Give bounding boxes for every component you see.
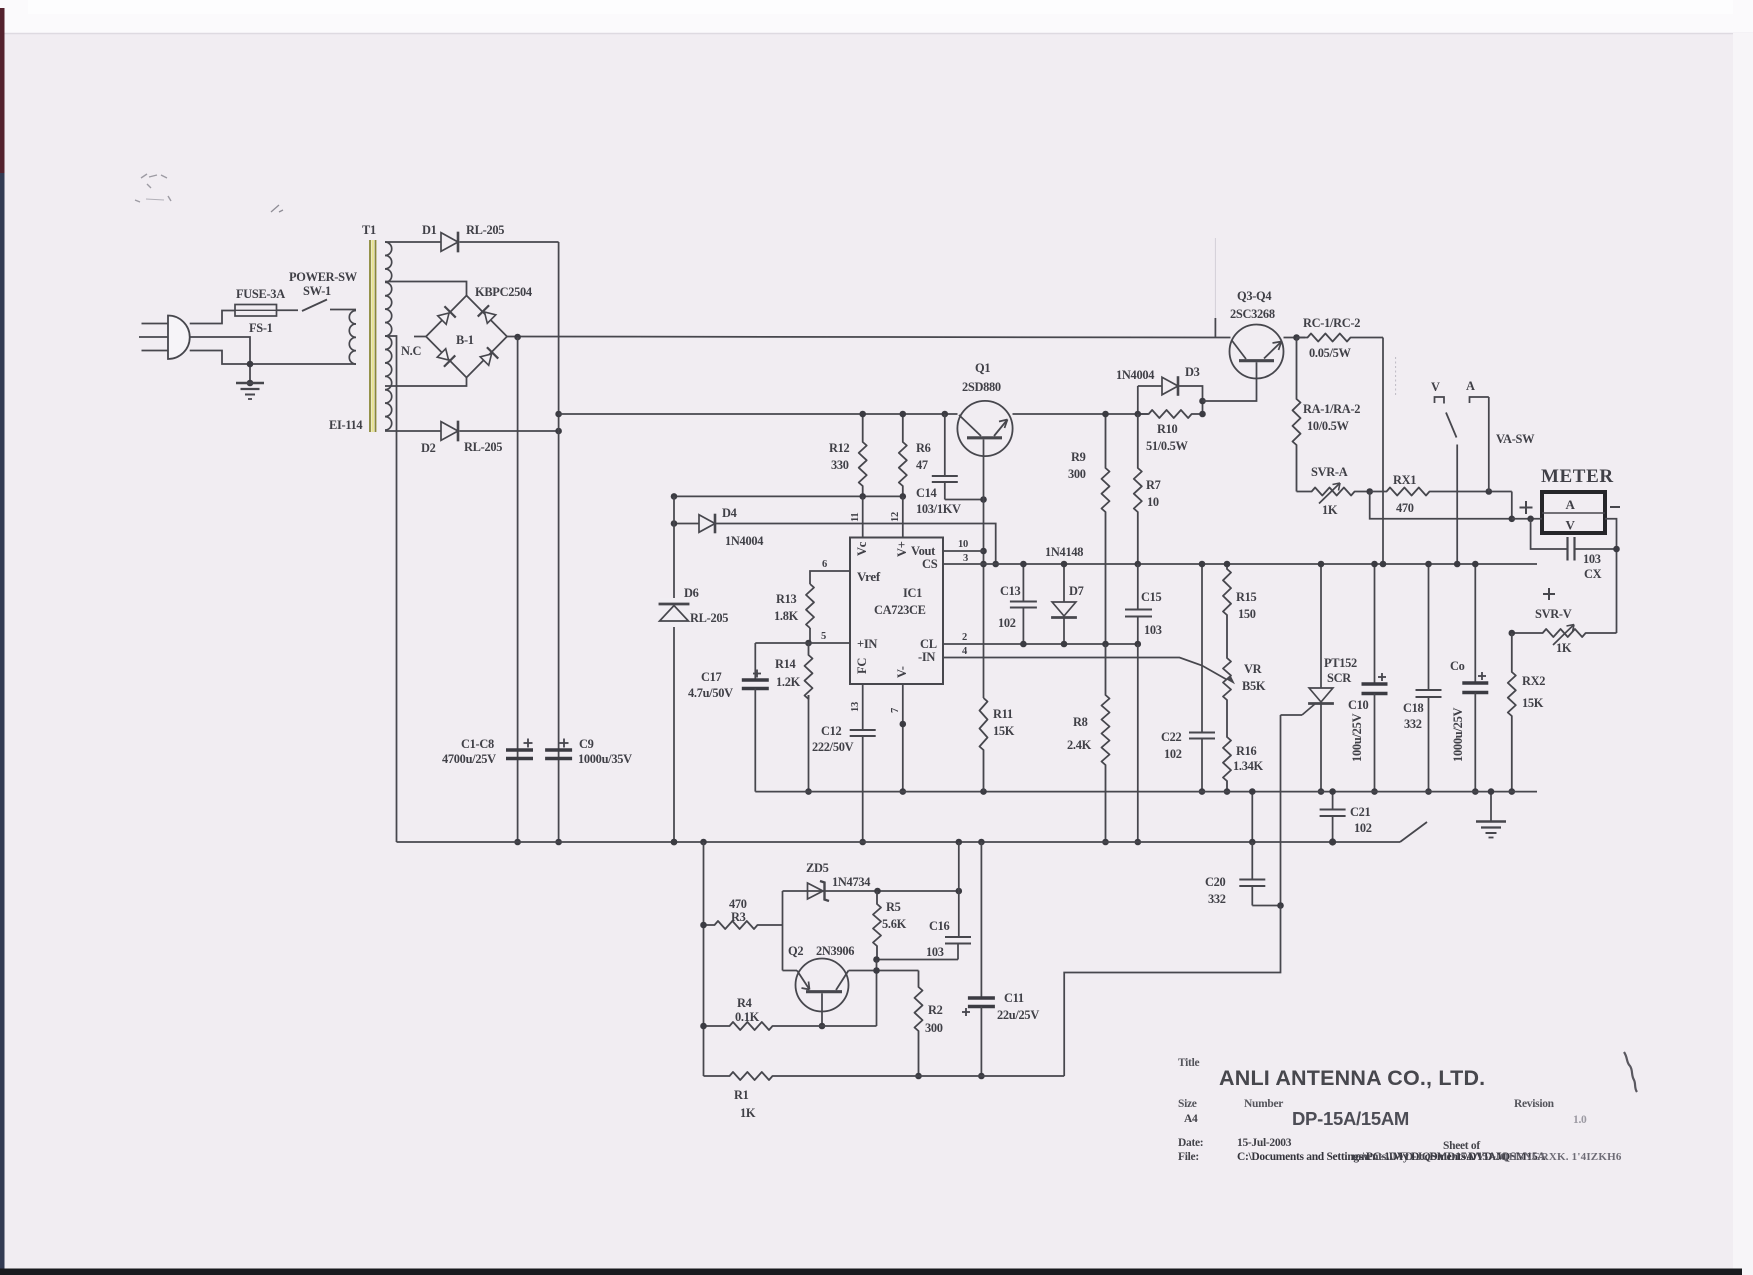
svg-text:Number: Number: [1244, 1098, 1283, 1110]
wire D4 line: [674, 523, 699, 525]
svg-text:File:: File:: [1178, 1151, 1199, 1163]
svg-text:SVR-V: SVR-V: [1535, 607, 1572, 621]
svg-text:PT152: PT152: [1324, 656, 1357, 670]
svg-text:SW-1: SW-1: [303, 284, 331, 298]
svg-text:102: 102: [1164, 747, 1182, 761]
junction C18 top: [1425, 561, 1432, 568]
svg-text:10: 10: [958, 539, 968, 550]
svg-text:470: 470: [729, 897, 747, 911]
fuse FS-1 FUSE-3A: [235, 305, 277, 317]
transformer T1 secondary winding: [385, 242, 392, 255]
svg-text:10: 10: [1147, 495, 1159, 509]
stub above rail1 near Q3: [1214, 318, 1216, 338]
junction R8 at busB: [1102, 839, 1109, 846]
svg-text:+IN: +IN: [857, 637, 877, 651]
svg-text:5: 5: [821, 631, 826, 642]
capacitor CX 103: [1531, 519, 1568, 549]
resistor R5 5.6K: [873, 891, 881, 960]
svg-text:R16: R16: [1236, 744, 1257, 758]
junction C14 at Q1 base line: [980, 496, 987, 503]
svg-text:POWER-SW: POWER-SW: [289, 270, 358, 284]
svg-text:B-1: B-1: [456, 333, 474, 347]
junction R5/C16 node: [873, 956, 880, 963]
wire D3 line: [1138, 385, 1162, 387]
junction rail1 to filter caps: [514, 334, 521, 341]
wire rail2 right of Q1: [1013, 413, 1149, 415]
resistor R14 1.2K: [805, 643, 813, 699]
svg-text:C10: C10: [1348, 698, 1369, 712]
svg-text:R9: R9: [1071, 450, 1086, 464]
junction plug return x ground wire: [247, 361, 254, 368]
svg-text:N.C: N.C: [401, 344, 421, 358]
wire D4 to CS corner: [716, 524, 996, 565]
switch SW-1 POWER-SW: [302, 300, 327, 312]
junction D7 top: [1061, 561, 1068, 568]
svg-text:1.0: 1.0: [1573, 1114, 1587, 1126]
junction C13 top: [1020, 561, 1027, 568]
junction R13/R14 at pin5: [805, 640, 812, 647]
pin 12 stub: [902, 496, 904, 537]
svg-text:R3: R3: [731, 910, 746, 924]
svg-text:300: 300: [925, 1021, 943, 1035]
junction R12 bottom: [859, 493, 866, 500]
junction filter vertical at bottom bus: [514, 839, 521, 846]
resistor R11 15K: [980, 698, 988, 792]
capacitor Co 1000u/25V: [1474, 564, 1476, 682]
svg-text:R5: R5: [886, 900, 901, 914]
svg-text:D3: D3: [1185, 365, 1200, 379]
label meter minus: [1610, 506, 1620, 508]
junction ground drop: [1488, 788, 1495, 795]
wire meter + lead: [1512, 518, 1542, 520]
capacitor C17 4.7u/50V: [754, 643, 756, 679]
junction R11 at busA: [980, 788, 987, 795]
junction R6 bottom: [900, 493, 907, 500]
junction R9 top rail2: [1102, 411, 1109, 418]
ground (AC): [247, 380, 254, 387]
junction Q1 base at CS: [980, 561, 987, 568]
junction busB R3 branch: [700, 839, 707, 846]
svg-text:332: 332: [1208, 892, 1226, 906]
junction node-A left corner: [671, 493, 678, 500]
label meter +: [1520, 507, 1533, 509]
junction SCR top at CS: [1318, 561, 1325, 568]
junction D7 bottom: [1061, 641, 1068, 648]
junction CX at meter minus: [1613, 546, 1620, 553]
svg-text:SVR-A: SVR-A: [1311, 465, 1348, 479]
bridge diode (upper-right arm): [478, 305, 497, 324]
svg-text:V-: V-: [895, 666, 909, 678]
wire SCR gate down: [1280, 715, 1282, 906]
svg-text:IC1: IC1: [903, 586, 922, 600]
wire rail2 left: [559, 413, 958, 415]
svg-text:R6: R6: [916, 441, 931, 455]
svg-text:Vc: Vc: [855, 541, 869, 556]
svg-text:A: A: [1466, 379, 1475, 393]
stray plus mark: [1543, 593, 1555, 595]
svg-text:Title: Title: [1178, 1057, 1199, 1069]
bridge diode (upper-left arm): [436, 306, 455, 325]
svg-text:C12: C12: [821, 724, 842, 738]
svg-text:R12: R12: [829, 441, 850, 455]
svg-text:R10: R10: [1157, 422, 1178, 436]
svg-text:C21: C21: [1350, 805, 1371, 819]
smudge marks top-left: [135, 174, 171, 202]
svg-text:22u/25V: 22u/25V: [997, 1008, 1039, 1022]
transistor Q1 2SD880: [957, 401, 1012, 456]
svg-text:332: 332: [1404, 717, 1422, 731]
wire secondary center tap: [385, 336, 397, 842]
svg-text:FC: FC: [855, 658, 869, 674]
capacitor C1-C8 4700u/25V: [506, 748, 533, 751]
wire node-A horizontal: [674, 495, 903, 497]
junction RC vertical at CS: [1380, 561, 1387, 568]
junction R12 top: [859, 411, 866, 418]
pot SVR-A 1K: [1297, 488, 1370, 496]
svg-text:R7: R7: [1146, 478, 1161, 492]
junction SVR-V left: [1509, 630, 1516, 637]
svg-text:FS-1: FS-1: [249, 321, 273, 335]
svg-text:VA-SW: VA-SW: [1496, 432, 1535, 446]
diode D6 RL-205 (zener to bus): [660, 598, 688, 627]
svg-text:1N4148: 1N4148: [1045, 545, 1083, 559]
diode D2 RL-205: [441, 422, 458, 441]
junction R4 left: [700, 1023, 707, 1030]
capacitor C18 332: [1428, 564, 1430, 690]
resistor R4 0.1K: [704, 1022, 823, 1030]
wire R3 branch vertical: [703, 842, 705, 1076]
wire bridge + down to bottom bus: [517, 337, 519, 842]
wire fuse to switch: [277, 309, 299, 311]
wire D3 cathode corner: [1179, 386, 1203, 414]
junction C10 top: [1371, 561, 1378, 568]
svg-text:1K: 1K: [1556, 641, 1572, 655]
svg-text:R15: R15: [1236, 590, 1257, 604]
transformer T1 core: [369, 240, 371, 432]
svg-text:C14: C14: [916, 486, 937, 500]
svg-text:CS: CS: [922, 557, 938, 571]
svg-text:103: 103: [1583, 552, 1601, 566]
svg-text:ZD5: ZD5: [806, 861, 829, 875]
bridge diode (lower-left arm): [436, 347, 455, 366]
svg-text:Vref: Vref: [857, 569, 881, 584]
wire bus B (secondary return): [397, 841, 1401, 843]
scan edge bar bottom: [0, 1269, 1742, 1275]
resistor R12 330: [859, 414, 867, 496]
junction column at busB: [1135, 839, 1142, 846]
junction Q1 base at Vout: [980, 548, 987, 555]
bridge diode (lower-right arm): [479, 347, 498, 366]
junction C21 top: [1329, 788, 1336, 795]
junction busB C11: [978, 839, 985, 846]
scan edge bar left (maroon top): [0, 8, 5, 173]
wire A contact down to RX1 line: [1488, 397, 1490, 492]
junction R2 at R1 line: [915, 1073, 922, 1080]
wire ground drop: [1490, 792, 1492, 821]
resistor R9 300: [1102, 414, 1110, 644]
junction D4 anode: [671, 520, 678, 527]
svg-text:CA723CE: CA723CE: [874, 603, 926, 617]
wire D1/D2 cathode vertical: [558, 242, 560, 842]
wire R7/C15 column to busB: [1137, 644, 1139, 842]
svg-text:V: V: [1431, 380, 1440, 394]
op-amp U1 IC1 CA723CE box: [850, 538, 943, 685]
svg-text:C13: C13: [1000, 584, 1021, 598]
svg-text:1000u/35V: 1000u/35V: [578, 752, 632, 766]
svg-text:1K: 1K: [1322, 503, 1338, 517]
svg-text:1N4004: 1N4004: [725, 534, 763, 548]
wire bridge + output (rail 1): [507, 337, 1231, 338]
wire plug bottom to primary return: [190, 351, 356, 365]
meter M1 box: [1542, 492, 1605, 533]
pot SVR-V 1K: [1512, 629, 1617, 637]
junction link at busA: [1249, 788, 1256, 795]
svg-text:B5K: B5K: [1242, 679, 1266, 693]
junction R10 right: [1199, 411, 1206, 418]
junction RX1 at A-switch: [1486, 488, 1493, 495]
wire SVR junction down to meter line: [1370, 492, 1512, 519]
pin 7 V- wire: [902, 684, 904, 792]
resistor R10 51/0.5W: [1138, 410, 1203, 418]
svg-text:1K: 1K: [740, 1106, 756, 1120]
wire plug to fuse: [190, 311, 235, 324]
svg-text:4.7u/50V: 4.7u/50V: [688, 686, 733, 700]
svg-text:R1: R1: [734, 1088, 749, 1102]
svg-text:CX: CX: [1584, 567, 1602, 581]
junction base line x R5 column: [873, 967, 880, 974]
zener ZD5 1N4734: [808, 883, 824, 899]
wire V contact down to CS: [1456, 445, 1458, 565]
svg-text:EI-114: EI-114: [329, 418, 362, 432]
svg-text:R14: R14: [775, 657, 796, 671]
svg-text:C18: C18: [1403, 701, 1424, 715]
junction C11 at R1 line: [978, 1073, 985, 1080]
junction Co top: [1472, 561, 1479, 568]
svg-text:470: 470: [1396, 501, 1414, 515]
svg-text:103: 103: [1144, 623, 1162, 637]
svg-text:RL-205: RL-205: [466, 223, 504, 237]
pen scribble: [1624, 1052, 1637, 1092]
svg-text:2N3906: 2N3906: [816, 944, 854, 958]
svg-text:5.6K: 5.6K: [882, 917, 907, 931]
junction R6 top: [900, 411, 907, 418]
resistor R8 2.4K: [1102, 644, 1110, 842]
wire secondary tap to bridge top: [385, 282, 467, 296]
svg-text:Co: Co: [1450, 659, 1465, 673]
switch V contact: [1435, 397, 1445, 404]
svg-text:103/1KV: 103/1KV: [916, 502, 961, 516]
wire gate wire down and left: [1064, 906, 1280, 1077]
junction pin7 at busA: [900, 788, 907, 795]
svg-text:R8: R8: [1073, 715, 1088, 729]
resistor R6 47: [899, 414, 907, 496]
svg-text:C11: C11: [1004, 991, 1024, 1005]
switch at bus B end: [1400, 822, 1427, 842]
wire RX1 corner to meter line: [1511, 492, 1513, 519]
transistor Q3-Q4 2SC3268: [1230, 325, 1284, 379]
pin 10 Vout wire: [943, 550, 984, 552]
junction rail1 at RA branch: [1293, 334, 1300, 341]
switch A contact: [1470, 397, 1489, 403]
pin 13 FC wire with C12: [862, 684, 864, 730]
svg-text:DP-15A/15AM: DP-15A/15AM: [1292, 1108, 1409, 1129]
transformer T1 primary winding: [349, 311, 356, 324]
pin 11 stub: [862, 496, 864, 537]
wire Q2 collector down: [821, 993, 823, 1026]
svg-text:Revision: Revision: [1514, 1098, 1555, 1110]
svg-text:C9: C9: [579, 737, 594, 751]
junction C13 bottom: [1020, 641, 1027, 648]
svg-text:METER: METER: [1541, 466, 1614, 487]
wire bus A (0V rail): [755, 791, 1537, 793]
diode D3 1N4004: [1162, 377, 1178, 395]
bridge N.C stub: [414, 336, 426, 338]
svg-text:Q1: Q1: [975, 361, 990, 375]
switch VA-SW arm: [1446, 413, 1457, 438]
svg-text:C22: C22: [1161, 730, 1182, 744]
svg-text:300: 300: [1068, 467, 1086, 481]
junction SVR-A / RX1: [1366, 488, 1373, 495]
resistor R15 150: [1223, 564, 1231, 640]
svg-text:222/50V: 222/50V: [812, 740, 854, 754]
wire switch to primary: [330, 309, 356, 311]
resistor R1 1K: [704, 1072, 1065, 1080]
junction R10 left: [1135, 411, 1142, 418]
wire RC corner down to CS: [1382, 338, 1384, 565]
svg-text:C16: C16: [929, 919, 950, 933]
capacitor C13 102: [1022, 564, 1024, 601]
junction RX2 at busA: [1509, 788, 1516, 795]
wire zener line corner: [782, 891, 784, 971]
junction D4 branch at CS: [992, 561, 999, 568]
svg-text:100u/25V: 100u/25V: [1350, 713, 1364, 762]
junction C22 at busA: [1199, 788, 1206, 795]
wire rail1 right of Q3: [1284, 337, 1306, 339]
svg-text:RX2: RX2: [1522, 674, 1545, 688]
capacitor C15 103: [1137, 564, 1139, 609]
svg-text:C20: C20: [1205, 875, 1226, 889]
wire R13 to pin5 line: [809, 628, 811, 643]
svg-text:KBPC2504: KBPC2504: [475, 285, 532, 299]
resistor R16 1.34K: [1223, 718, 1231, 792]
svg-text:6: 6: [822, 559, 827, 570]
junction C22 top at CS: [1199, 561, 1206, 568]
capacitor C21 102: [1332, 792, 1334, 809]
svg-text:A4: A4: [1184, 1113, 1198, 1125]
pin 6 Vref wire: [810, 571, 850, 584]
capacitor C11 22u/25V: [980, 842, 982, 997]
svg-text:T1: T1: [362, 223, 376, 237]
junction pin13 at bottom bus: [859, 839, 866, 846]
svg-text:V+: V+: [895, 541, 909, 557]
junction D2 cathode: [555, 428, 562, 435]
wire CS sense line: [943, 563, 1537, 565]
svg-text:QHSNGRXK. 1'4IZKH6: QHSNGRXK. 1'4IZKH6: [1500, 1151, 1622, 1163]
svg-text:R11: R11: [993, 707, 1013, 721]
svg-text:47: 47: [916, 458, 928, 472]
svg-text:2SC3268: 2SC3268: [1230, 307, 1275, 321]
junction pin7 mid: [900, 721, 907, 728]
svg-text:11: 11: [850, 513, 861, 522]
svg-text:R2: R2: [928, 1003, 943, 1017]
resistor R13 1.8K: [806, 584, 814, 628]
wire secondary bottom to D2: [385, 430, 441, 432]
svg-text:D2: D2: [421, 441, 436, 455]
wire meter - lead: [1605, 519, 1617, 633]
junction Q2 collector at R4 line: [819, 1023, 826, 1030]
svg-text:1N4734: 1N4734: [832, 875, 870, 889]
svg-text:3: 3: [963, 553, 968, 564]
junction meter+ corner: [1509, 516, 1516, 523]
junction CX branch: [1527, 516, 1534, 523]
resistor RA-1/RA-2 10/0.5W: [1293, 338, 1301, 492]
svg-text:D7: D7: [1069, 584, 1084, 598]
junction ZD5 line right: [956, 888, 963, 895]
svg-text:13: 13: [850, 702, 861, 712]
junction D3 branch at collector line: [1199, 398, 1206, 405]
wire plug mid to ground: [190, 337, 250, 383]
junction ZD5 line R5: [874, 888, 881, 895]
junction busB D6: [671, 839, 678, 846]
svg-text:RL-205: RL-205: [464, 440, 502, 454]
wire Q1 base down: [983, 440, 985, 699]
junction R9 bottom node2: [1102, 641, 1109, 648]
wire D1 to cathode bus: [460, 241, 559, 243]
svg-text:C1-C8: C1-C8: [461, 737, 494, 751]
junction R14 at busA: [805, 788, 812, 795]
svg-text:VR: VR: [1244, 662, 1263, 676]
capacitor C14 103/1KV: [942, 411, 949, 418]
transistor Q2 2N3906: [796, 959, 849, 1012]
svg-text:15-Jul-2003: 15-Jul-2003: [1237, 1137, 1292, 1149]
svg-text:A: A: [1565, 497, 1575, 512]
junction R15 top at CS: [1224, 561, 1231, 568]
wire zener line: [783, 890, 959, 892]
AC plug P1: [168, 316, 190, 360]
svg-text:2.4K: 2.4K: [1067, 738, 1092, 752]
pin 4 -IN wire: [943, 658, 1227, 680]
junction link at busB: [1249, 839, 1256, 846]
svg-text:D4: D4: [722, 506, 737, 520]
svg-text:102: 102: [998, 616, 1016, 630]
junction cathode bus to unreg rail: [555, 411, 562, 418]
wire D6 vertical: [673, 496, 675, 842]
svg-text:Q2: Q2: [788, 944, 803, 958]
svg-text:1.8K: 1.8K: [774, 609, 799, 623]
diode D1 RL-205: [441, 233, 458, 252]
junction C15 bottom node2: [1135, 641, 1142, 648]
svg-text:0.05/5W: 0.05/5W: [1309, 346, 1352, 360]
svg-text:RX1: RX1: [1393, 473, 1416, 487]
capacitor C9 1000u/35V: [545, 748, 572, 751]
svg-text:uments\DVD-JQSMD15A/15AM: uments\DVD-JQSMD15A/15AM: [1352, 1151, 1507, 1163]
svg-text:D6: D6: [684, 586, 699, 600]
junction cathode bus to bottom bus: [555, 839, 562, 846]
svg-text:-IN: -IN: [918, 650, 935, 664]
svg-text:1.2K: 1.2K: [776, 675, 801, 689]
diode D4 1N4004: [699, 515, 715, 533]
svg-text:Size: Size: [1178, 1098, 1197, 1110]
pin 2 CL wire (to node line): [943, 643, 1139, 645]
svg-text:R13: R13: [776, 592, 797, 606]
junction C21 bottom: [1329, 838, 1336, 845]
pot VR B5K body: [1223, 640, 1231, 718]
svg-text:Date:: Date:: [1178, 1137, 1203, 1149]
svg-text:0.1K: 0.1K: [735, 1010, 760, 1024]
resistor R3 470: [704, 921, 783, 929]
svg-text:2SD880: 2SD880: [962, 380, 1001, 394]
resistor RC-1/RC-2 0.05/5W: [1297, 334, 1384, 342]
